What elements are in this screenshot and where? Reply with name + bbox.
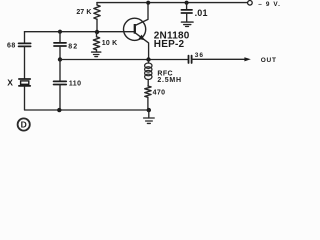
inductor RFC 2.5MH <box>148 60 150 64</box>
svg-text:OUT: OUT <box>261 57 277 64</box>
wire output line <box>192 58 245 60</box>
svg-text:– 9 V.: – 9 V. <box>258 1 281 8</box>
svg-text:X: X <box>7 77 13 87</box>
svg-text:HEP-2: HEP-2 <box>154 39 185 50</box>
svg-text:470: 470 <box>153 90 166 97</box>
crystal X <box>19 78 30 80</box>
resistor 10K <box>96 32 98 37</box>
capacitor 82 <box>59 32 61 43</box>
node junction 110/bottom rail <box>57 108 61 112</box>
wire emitter rail <box>60 59 188 61</box>
node junction base/divider <box>95 30 99 34</box>
svg-text:D: D <box>21 120 27 130</box>
svg-text:.01: .01 <box>195 8 208 18</box>
ground main <box>148 110 150 118</box>
terminal -9V <box>248 1 253 6</box>
svg-text:68: 68 <box>7 43 16 50</box>
resistor 470 <box>145 86 151 97</box>
ground under 10K <box>92 52 101 57</box>
node junction collector/rail <box>146 1 150 5</box>
transistor Q1 2N1180 <box>124 18 146 40</box>
capacitor 36 (output coupling) <box>188 56 190 63</box>
svg-text:27 K: 27 K <box>76 9 91 16</box>
svg-text:82: 82 <box>68 43 78 50</box>
node junction 82-cap tap <box>58 30 62 34</box>
node junction emitter/RFC <box>146 57 150 61</box>
capacitor 68 <box>24 32 26 44</box>
transistor base bar <box>134 24 136 34</box>
resistor 27K <box>96 3 98 5</box>
wire crystal to bottom rail <box>25 86 149 110</box>
node junction emitter tap <box>58 57 62 61</box>
node junction bottom rail/ground <box>147 108 151 112</box>
transistor collector lead <box>135 3 148 26</box>
capacitor 110 <box>59 60 61 82</box>
svg-text:2.5MH: 2.5MH <box>157 77 181 84</box>
svg-text:36: 36 <box>195 52 204 59</box>
svg-text:10 K: 10 K <box>102 40 118 47</box>
wire base rail <box>25 31 135 33</box>
svg-text:110: 110 <box>69 80 82 87</box>
transistor emitter arrow <box>138 35 144 41</box>
output arrow <box>244 57 250 61</box>
wire top supply rail <box>97 2 248 4</box>
figure label D <box>18 118 30 130</box>
capacitor .01 <box>185 1 189 5</box>
ground under .01 <box>181 22 193 26</box>
transistor emitter lead <box>135 33 149 60</box>
